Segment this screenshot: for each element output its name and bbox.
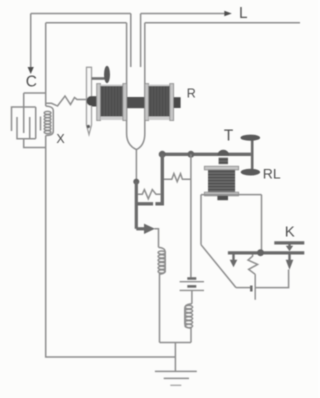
lever pivot dot	[87, 125, 90, 128]
node dot on bus (middle)	[187, 151, 194, 158]
right contact arrow under bar	[288, 254, 290, 260]
local circuit box: right edge	[261, 195, 263, 250]
wire: long right horizontal line	[145, 22, 300, 24]
key battery long plate	[254, 274, 256, 300]
wire: diagonal to key battery	[201, 245, 236, 288]
coherer tube right wall	[136, 23, 144, 150]
choke coil 1 (left)	[158, 247, 165, 342]
svg-text:RL: RL	[263, 166, 281, 182]
relay RL bottom flange	[204, 192, 238, 196]
key lower bar	[228, 251, 304, 254]
svg-text:K: K	[285, 223, 295, 240]
key K upper contact arrow	[288, 244, 290, 246]
svg-text:T: T	[224, 128, 233, 145]
tapper disc top	[241, 135, 261, 141]
electromagnet R: right coil body	[149, 86, 170, 117]
wire: earth stem	[174, 343, 176, 372]
left contact arrow under bar	[232, 254, 234, 260]
resistor (vertical, at key)	[248, 255, 258, 275]
contact stub into left coil	[92, 96, 97, 106]
tapper rod T	[251, 136, 254, 175]
coherer tube left wall	[127, 23, 137, 150]
electromagnet R: left coil bobbin	[101, 85, 123, 121]
wire: inner top horizontal from X branch to tube left wall	[46, 22, 127, 24]
electromagnet R: right end stub	[174, 97, 181, 108]
electromagnet R: core bar through tube	[125, 97, 147, 108]
relay RL bottom block	[217, 196, 228, 200]
relay RL coil body	[208, 170, 235, 192]
wire from arrow to choke coil	[155, 229, 159, 248]
key K upper bar	[274, 241, 304, 244]
choke coil 2 (right, below battery)	[185, 304, 193, 343]
thick elbow to arrow	[136, 227, 144, 230]
contact blob on lever	[87, 96, 95, 106]
arrowhead L	[224, 11, 232, 17]
key battery short plate	[250, 286, 253, 292]
wire: branch to cell plates	[24, 92, 46, 94]
ground symbol	[155, 371, 197, 385]
local circuit box: left edge	[200, 195, 202, 245]
wire: line L horizontal with arrow	[141, 13, 225, 15]
electrode wire right inside tube	[140, 14, 142, 68]
node dot on lower bar	[257, 249, 264, 256]
resistor (upper, bus shunt)	[164, 174, 191, 182]
wire: main left vertical lower run to earth	[46, 136, 176, 358]
thick bus wire to relay	[159, 153, 251, 156]
contact bar (left half) from thick vertical	[135, 202, 153, 205]
detector lever plate	[87, 67, 92, 134]
arrowhead (current direction into coil)	[144, 224, 155, 234]
svg-text:L: L	[239, 5, 248, 22]
relay RL armature dome on bus	[217, 150, 229, 156]
wire: funnel stem down to node	[135, 149, 137, 181]
electromagnet R: right coil bobbin	[149, 85, 170, 121]
wire: top horizontal from C arrow to left tube electrode	[31, 13, 131, 15]
electromagnet R: left flange inner	[123, 84, 127, 121]
resistor (series to detector lever)	[46, 96, 87, 106]
electromagnet R: right flange inner	[145, 84, 149, 121]
wire: battery to diagonal	[236, 287, 250, 289]
relay RL upper hatched block	[219, 158, 228, 165]
svg-text:C: C	[26, 74, 37, 91]
wire: middle vertical from bus node to battery	[190, 154, 192, 277]
contact stub (right half)	[155, 202, 164, 205]
electrode wire left inside tube	[130, 14, 132, 68]
local circuit box: top edge	[201, 194, 262, 196]
svg-text:R: R	[187, 87, 196, 101]
thick vertical from node down	[135, 182, 138, 229]
thumbscrew knob	[104, 66, 110, 83]
battery/cell jar plates (element at C)	[12, 93, 46, 148]
electromagnet R: right flange outer	[170, 84, 174, 121]
wire: bottom junction bar	[160, 342, 192, 344]
node dot on bus (left)	[159, 151, 166, 158]
electromagnet R: left coil body	[101, 86, 123, 117]
relay RL top flange	[204, 166, 238, 170]
main battery plates	[187, 277, 196, 280]
wire: main left vertical (antenna lead down the page)	[45, 23, 47, 106]
resistor (lower, across contact)	[138, 190, 161, 199]
thick vertical from bus to contact	[161, 154, 164, 204]
electromagnet R: left flange outer	[97, 84, 101, 121]
coil X on main vertical	[44, 106, 53, 136]
adjusting rod	[92, 77, 105, 80]
wire: battery to key arm	[255, 270, 288, 288]
tapper disc bottom	[241, 169, 260, 176]
arrowhead at C	[28, 67, 34, 74]
node junction dot	[133, 179, 139, 185]
wire: battery to choke coil 2	[191, 290, 193, 303]
svg-text:X: X	[56, 132, 65, 146]
wire: vertical drop to arrow C	[30, 14, 32, 68]
